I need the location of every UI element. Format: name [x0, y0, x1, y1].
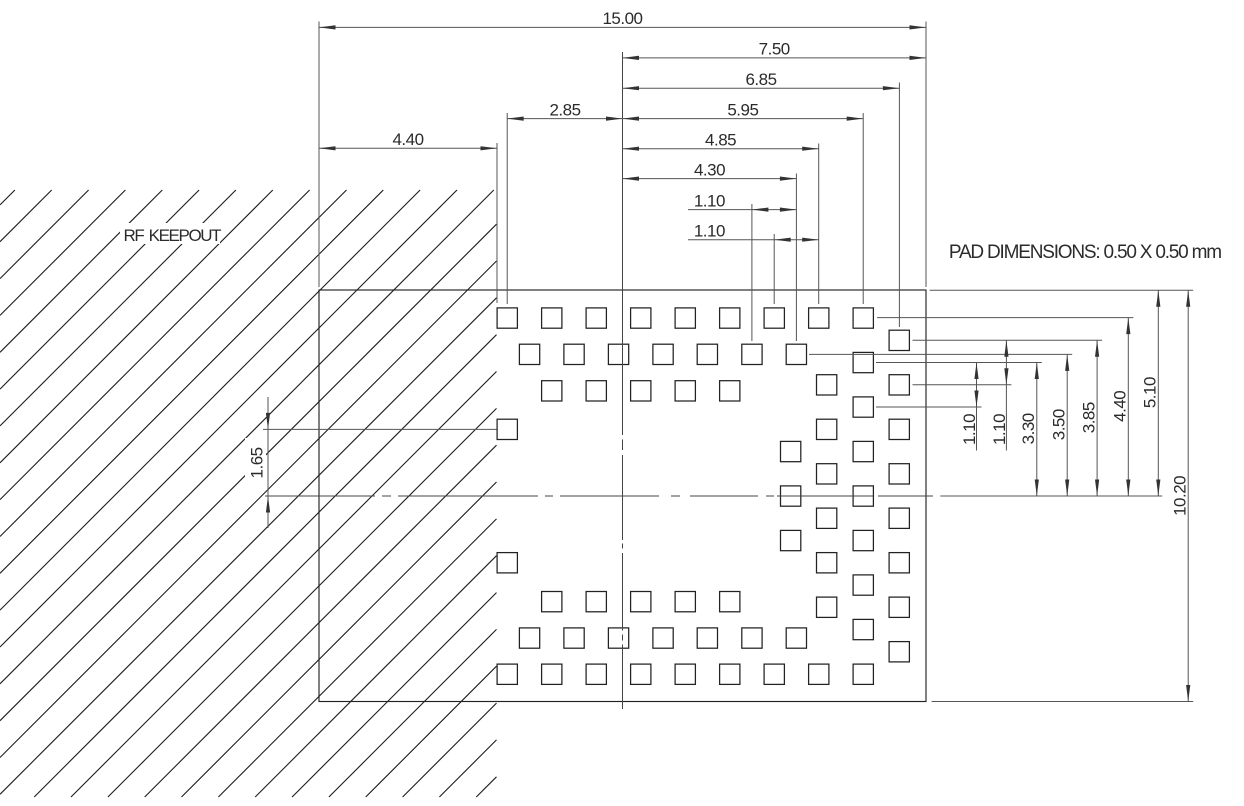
bottom row 1 pads (y +4.40): [497, 664, 873, 684]
dimension 2.85: [507, 100, 622, 120]
extension line x=818.7 (4.85): [818, 144, 820, 305]
dimension 6.85: [623, 70, 900, 90]
extension line module right corner: [925, 22, 927, 288]
horizontal centerline right extension: [940, 495, 1162, 497]
dimension 7.50: [623, 40, 927, 60]
top row 3 pads (y -2.60): [542, 381, 740, 401]
extension line x=899.4 (6.85): [898, 83, 900, 328]
dimension 4.40 right: [1111, 318, 1131, 496]
extension line module bottom right (10.20): [932, 701, 1194, 703]
top row 2 pads (y -3.50): [519, 344, 806, 364]
extension line x=796.4 (4.30): [795, 174, 797, 342]
note PAD DIMENSIONS: [949, 242, 1221, 263]
extension line x=774.2 (1.10 lower): [773, 234, 775, 304]
vertical centerline: [622, 52, 624, 709]
right column D pads (x 6.85): [889, 330, 909, 662]
right column A pads (x 4.15): [781, 441, 801, 550]
dimension 15.00 (module width): [319, 9, 926, 29]
svg-text:4.30: 4.30: [694, 160, 725, 179]
svg-text:3.50: 3.50: [1049, 409, 1068, 440]
svg-text:15.00: 15.00: [602, 9, 642, 28]
leader col C 2nd pad (1.10 ref): [876, 406, 982, 408]
svg-text:4.40: 4.40: [392, 130, 423, 149]
svg-text:10.20: 10.20: [1170, 476, 1189, 516]
dimension 4.40 left: [319, 130, 497, 150]
leader row2 pad 4.30 (3.50 ref): [809, 353, 1072, 355]
extension line x=863.2 (5.95): [862, 113, 864, 304]
dimension 4.85: [623, 131, 819, 151]
horizontal centerline: [265, 495, 933, 497]
svg-text:RF KEEPOUT: RF KEEPOUT: [124, 226, 222, 245]
dimension 10.20 (module height): [1170, 290, 1190, 701]
svg-text:3.30: 3.30: [1019, 413, 1038, 444]
hatch text clearance boxes: [120, 223, 266, 486]
svg-text:4.85: 4.85: [705, 131, 736, 150]
dimension 5.95: [623, 100, 864, 120]
dimension 5.10: [1141, 290, 1161, 496]
svg-text:1.10: 1.10: [694, 191, 725, 210]
extension line module top right (5.10/10.20): [930, 289, 1194, 291]
leader col C top pad (3.30 ref): [876, 362, 1042, 364]
dimension 4.30: [623, 160, 797, 180]
svg-text:PAD DIMENSIONS: 0.50 X 0.50 mm: PAD DIMENSIONS: 0.50 X 0.50 mm: [949, 242, 1221, 263]
leader col D 2nd pad (1.10 ref): [913, 384, 1012, 386]
dimension 1.10 (row1 pitch, lower): [688, 221, 819, 241]
dimension 1.10 vertical (col C pitch): [960, 363, 979, 451]
dimension 1.10 vertical (col D pitch): [990, 340, 1009, 450]
dimension 3.50: [1049, 354, 1069, 496]
svg-text:5.10: 5.10: [1141, 377, 1160, 408]
right column B pads (x 5.05): [817, 375, 837, 618]
bottom row 2 pads (y +3.50): [519, 628, 806, 648]
left side pads (x -2.85, y ±1.65): [497, 419, 517, 573]
dimension 3.85: [1079, 340, 1099, 496]
dimension 3.30: [1019, 363, 1039, 497]
svg-text:1.10: 1.10: [990, 414, 1009, 445]
bottom row 3 pads (y +2.60): [542, 592, 740, 612]
extension line x=507.2 (2.85): [506, 113, 508, 304]
dimension 1.10 (row2 pitch, upper): [688, 191, 796, 211]
right column C pads (x 5.95): [853, 352, 873, 639]
svg-text:7.50: 7.50: [759, 40, 790, 59]
svg-text:4.40: 4.40: [1111, 391, 1130, 422]
top row 1 pads (y -4.40): [497, 308, 873, 328]
svg-text:1.10: 1.10: [960, 414, 979, 445]
svg-text:3.85: 3.85: [1079, 402, 1098, 433]
extension line x=751.9 (1.10 upper): [751, 204, 753, 341]
extension line x=497 (4.40 left): [496, 143, 498, 303]
leader row1 right (4.40R ref): [877, 317, 1133, 319]
leader col D top pad (3.85 ref): [913, 339, 1103, 341]
module outline (15.00 x 10.20 mm body): [319, 290, 926, 702]
svg-text:2.85: 2.85: [549, 100, 580, 119]
svg-text:1.65: 1.65: [248, 447, 267, 478]
hatch RF keepout area (45-degree section lines): [0, 190, 497, 797]
dimension 1.65 with leader to left pad: [248, 397, 497, 528]
extension line module left corner: [318, 22, 320, 288]
svg-text:6.85: 6.85: [745, 70, 776, 89]
note RF KEEPOUT: [124, 226, 222, 245]
svg-text:1.10: 1.10: [694, 221, 725, 240]
svg-text:5.95: 5.95: [727, 100, 758, 119]
